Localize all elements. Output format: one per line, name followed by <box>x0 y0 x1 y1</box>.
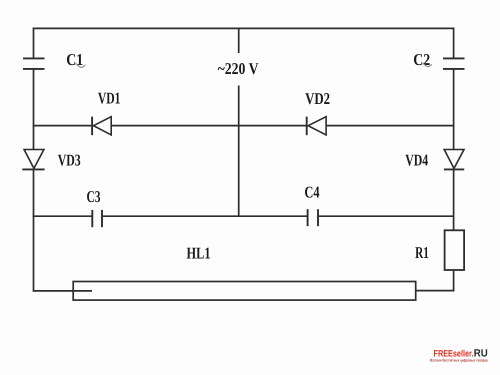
svg-text:VD3: VD3 <box>58 151 81 170</box>
wire C3 row: C4 to right vertical <box>318 215 454 217</box>
svg-text:C1: C1 <box>66 50 83 69</box>
svg-text:Магазин бесплатных цифровых то: Магазин бесплатных цифровых товаров <box>430 358 488 363</box>
diode VD3 <box>22 150 44 170</box>
wire right vertical: C2 to VD4 <box>453 70 455 150</box>
svg-text:R1: R1 <box>415 243 429 262</box>
svg-text:VD1: VD1 <box>98 88 121 107</box>
svg-text:VD2: VD2 <box>305 89 330 108</box>
diode VD2 <box>307 117 326 136</box>
wire top bus <box>33 27 455 29</box>
wire right vertical: VD4 to R1 <box>453 170 455 230</box>
wire left vertical: top bus to C1 <box>33 28 35 58</box>
diode VD1 <box>92 117 111 136</box>
svg-text:C3: C3 <box>87 187 101 206</box>
svg-text:C2: C2 <box>413 50 430 69</box>
capacitor C4 <box>308 209 318 226</box>
capacitor C1 <box>23 58 45 69</box>
wire VD1 row: VD1 anode to VD2 cathode <box>111 125 307 127</box>
wire lamp right lead to R1 branch <box>416 290 454 292</box>
lamp HL1 tube body <box>73 282 416 301</box>
wire center vertical lower segment <box>238 86 240 217</box>
capacitor C3 <box>92 210 102 227</box>
resistor R1 <box>445 230 465 270</box>
wire VD1 row: VD2 anode to right vertical <box>326 125 454 127</box>
wire right vertical: R1 to bottom corner <box>452 270 455 291</box>
wire VD1 row: left vertical to VD1 cathode <box>33 125 92 127</box>
wire C3 row: left vertical to C3 <box>33 215 92 217</box>
svg-text:HL1: HL1 <box>187 243 211 262</box>
capacitor C2 <box>443 58 465 69</box>
logo FREEseller.RU <box>434 348 488 360</box>
svg-text:C4: C4 <box>304 183 319 202</box>
wire right vertical: top bus to C2 <box>453 28 455 58</box>
stray mark under C2 label <box>423 63 432 67</box>
svg-text:~220 V: ~220 V <box>218 59 259 78</box>
wire lamp left electrode <box>33 290 92 292</box>
diode VD4 <box>444 150 464 170</box>
svg-text:VD4: VD4 <box>405 151 428 170</box>
wire left vertical: C1 to VD3 <box>33 70 35 150</box>
wire left vertical: VD3 to bottom corner <box>33 170 36 291</box>
wire C3 row: C3 to C4 <box>102 215 308 217</box>
stray mark under C1 label <box>76 64 85 68</box>
wire center vertical upper segment <box>238 28 240 53</box>
